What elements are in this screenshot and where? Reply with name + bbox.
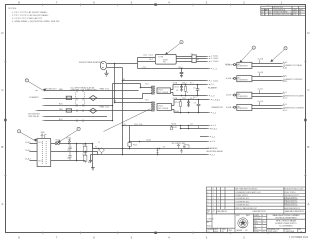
svg-text:J2-A-3: J2-A-3: [25, 157, 31, 160]
svg-text:J4-C-2: J4-C-2: [283, 98, 288, 100]
zone numbers bottom: [18, 236, 245, 240]
svg-text:B: B: [307, 145, 309, 149]
svg-text:A: A: [307, 202, 309, 206]
svg-text:-1 J1-B-1: -1 J1-B-1: [211, 80, 219, 82]
svg-text:ON: ON: [222, 231, 224, 233]
svg-text:2. PP-7 TO PP-12 AT FRONT PANE: 2. PP-7 TO PP-12 AT FRONT PANEL.: [12, 14, 49, 17]
svg-text:3. CP TO CP1-1 SEE LAYOUT.: 3. CP TO CP1-1 SEE LAYOUT.: [12, 17, 43, 20]
svg-text:CR5-1: CR5-1: [178, 67, 183, 69]
svg-text:0-50A: 0-50A: [226, 77, 232, 80]
svg-text:CONVERTER: CONVERTER: [238, 79, 249, 81]
fuse PS-1 box: [128, 143, 131, 147]
K2 comp resistor: [184, 145, 189, 148]
svg-text:HEAT COIL: HEAT COIL: [100, 105, 110, 108]
wire FL1 out 1: [176, 56, 206, 58]
left stub marks: [36, 91, 45, 121]
svg-text:CONVERTER: CONVERTER: [238, 108, 249, 110]
svg-text:CR1-1: CR1-1: [66, 138, 71, 140]
T1 input wires: [30, 144, 38, 161]
link T1 mid to row3: [97, 152, 99, 155]
balloon 3 leader: [20, 132, 36, 141]
svg-text:C4: C4: [269, 12, 271, 14]
zone tick bottom: [43, 232, 268, 235]
zone tick top: [43, 4, 268, 7]
relay K1 row BLK: [44, 105, 112, 107]
svg-text:CONVERTER: CONVERTER: [238, 96, 249, 98]
K1 contact bars: [76, 93, 85, 108]
leader diagonal to T3: [104, 109, 151, 132]
wire T2 out bottom: [171, 93, 207, 96]
svg-text:FILT: FILT: [163, 61, 166, 63]
svg-text:1: 1: [265, 12, 266, 14]
svg-text:1: 1: [213, 198, 214, 200]
capacitor C9: [197, 100, 201, 113]
svg-text:A: A: [1, 202, 3, 206]
circuit breaker CB1: [51, 143, 61, 145]
svg-text:1: 1: [213, 192, 214, 194]
svg-text:RESERVOIR: RESERVOIR: [212, 107, 224, 109]
svg-text:F1: F1: [95, 146, 97, 148]
svg-text:DEPT: DEPT: [236, 215, 240, 217]
wire T3 out bottom: [172, 110, 209, 113]
relay K2 row RED: [38, 110, 153, 112]
svg-text:11/19: 11/19: [293, 14, 297, 16]
wire row C5-1: [138, 68, 209, 70]
svg-text:SLOW: SLOW: [66, 110, 72, 112]
wire vertical filter input: [137, 58, 139, 69]
svg-text:-1,-1: -1,-1: [211, 84, 215, 86]
wire FL1 out 3: [176, 61, 206, 63]
svg-text:2: 2: [265, 14, 266, 16]
svg-text:POWER SUPPLY: POWER SUPPLY: [235, 195, 249, 197]
svg-text:J4-B-2: J4-B-2: [283, 81, 288, 83]
capacitor C2: [68, 152, 71, 161]
terminal pins J1 column: [207, 57, 213, 155]
link T1 top to row2: [92, 144, 94, 149]
title block title col: [273, 214, 301, 227]
svg-text:K2-1 SPDT REL: K2-1 SPDT REL: [172, 143, 186, 145]
bus x92.9 down to ground: [92, 144, 94, 168]
svg-text:-1,-2: -1,-2: [212, 112, 216, 114]
svg-text:ELEC: ELEC: [254, 221, 258, 223]
svg-text:10/19: 10/19: [261, 231, 265, 233]
svg-text:H2 L2: H2 L2: [39, 160, 43, 162]
svg-text:R1-1: R1-1: [83, 145, 87, 147]
svg-text:-1,-7: -1,-7: [211, 155, 215, 157]
svg-text:VERTICAL COIL (ENERGIZED): VERTICAL COIL (ENERGIZED): [71, 89, 98, 92]
svg-text:RESERVOIR CURRENT: RESERVOIR CURRENT: [283, 108, 305, 110]
wire y83.5: [113, 83, 141, 85]
diode CR8: [180, 85, 183, 92]
wire FL1 out 2: [176, 58, 206, 60]
resistor R2-1: [83, 155, 87, 161]
balloon digits: [19, 42, 287, 133]
wire long row 2: [93, 148, 208, 150]
svg-text:1: 1: [207, 208, 208, 210]
svg-text:-1,-8: -1,-8: [211, 96, 215, 98]
svg-text:FILAMENT CURRENT: FILAMENT CURRENT: [283, 78, 303, 81]
svg-text:20-J4-B: 20-J4-B: [258, 72, 264, 74]
bus x129: [129, 126, 131, 149]
capacitor C5-1 hanging: [180, 69, 184, 78]
svg-text:-1,-5: -1,-5: [212, 125, 216, 127]
svg-text:2: 2: [285, 48, 286, 50]
svg-text:J1-B-3: J1-B-3: [211, 129, 217, 131]
svg-text:T2-1: T2-1: [145, 83, 149, 85]
svg-text:REF TUBE SMITH SOLENOID: REF TUBE SMITH SOLENOID: [235, 189, 258, 191]
svg-text:WS: WS: [261, 221, 263, 223]
svg-text:E1: E1: [88, 162, 90, 164]
K1 contact ticks: [77, 90, 83, 122]
transformer T3: [152, 101, 154, 111]
wire T3 out top: [172, 100, 209, 106]
svg-text:L6-2: L6-2: [149, 59, 153, 61]
svg-text:TECHNICAL DEPARTMENT: TECHNICAL DEPARTMENT: [275, 216, 296, 219]
ground K2: [180, 149, 183, 154]
line filter FL1: [155, 54, 176, 64]
svg-text:C7: C7: [193, 87, 195, 89]
svg-text:1. PP-1 TO PP-5 AT FRONT PANEL: 1. PP-1 TO PP-5 AT FRONT PANEL.: [12, 11, 48, 14]
svg-text:J4-D-1: J4-D-1: [283, 104, 288, 106]
svg-text:05Z: 05Z: [245, 230, 248, 232]
svg-text:1 OCTOBER 2019: 1 OCTOBER 2019: [289, 237, 309, 239]
A/D converter U3: [233, 90, 285, 98]
svg-text:STEEL TORCH: STEEL TORCH: [284, 192, 296, 194]
svg-text:H1 L1: H1 L1: [39, 142, 43, 144]
wire T1 out top: [61, 143, 93, 145]
svg-text:REL: REL: [183, 146, 187, 148]
balloon 1 leader: [166, 43, 181, 54]
svg-text:4. WIRE-WRAP = (W)TWISTED-WIRE: 4. WIRE-WRAP = (W)TWISTED-WIRE, SEE W/L: [12, 20, 61, 23]
balloon 6 leader: [271, 50, 284, 62]
relay K1 group upper row RED: [45, 90, 139, 92]
rectifier CR7 box: [157, 88, 171, 94]
svg-text:CR8-1: CR8-1: [182, 83, 187, 85]
svg-text:-1,-6: -1,-6: [211, 141, 215, 143]
svg-text:1: 1: [213, 205, 214, 207]
relay K1 row mid: [44, 98, 142, 100]
K2 slow box: [66, 109, 71, 112]
svg-text:5623155: 5623155: [286, 231, 295, 233]
svg-text:R5: R5: [124, 124, 126, 126]
K2 comp cluster diode: [177, 144, 179, 148]
wire K1 mid jog: [143, 94, 153, 99]
svg-text:1: 1: [218, 198, 219, 200]
diode CR1-1: [68, 139, 70, 144]
group D link verticals: [181, 126, 199, 129]
wire connector pin2: [107, 67, 122, 69]
svg-text:CR 81: CR 81: [171, 123, 176, 125]
svg-text:B: B: [1, 145, 3, 149]
title block approvals col: [254, 214, 265, 233]
svg-text:CR10: CR10: [182, 98, 186, 100]
svg-text:54321: 54321: [273, 231, 278, 233]
svg-text:1: 1: [78, 129, 79, 131]
svg-text:D2: D2: [269, 14, 271, 16]
svg-text:HEAT COIL: HEAT COIL: [100, 87, 110, 90]
svg-text:JW: JW: [299, 14, 302, 16]
bus x112: [112, 84, 114, 121]
svg-text:J3-GND-V13: J3-GND-V13: [46, 89, 57, 91]
title block seal emblem: [238, 218, 248, 228]
svg-text:3: 3: [19, 131, 20, 133]
svg-text:D: D: [268, 230, 270, 233]
svg-text:C9: C9: [194, 103, 196, 105]
svg-text:5: 5: [207, 195, 208, 197]
varistor B1: [99, 148, 105, 153]
svg-text:C6-1 + L6-1: C6-1 + L6-1: [143, 54, 153, 56]
svg-text:R2-1: R2-1: [83, 154, 87, 156]
zone letters right: [307, 31, 310, 206]
wire T1 out bottom: [51, 160, 86, 162]
K2 coil: [90, 108, 97, 113]
svg-text:R5-1 100: R5-1 100: [134, 124, 142, 126]
svg-text:NEXT: NEXT: [214, 229, 218, 231]
svg-text:20-J4-C: 20-J4-C: [258, 89, 265, 91]
fold mark bottom: [154, 232, 156, 234]
svg-text:SLOW: SLOW: [66, 98, 72, 100]
resistor R7: [185, 85, 187, 96]
svg-text:MANUFACTURER/SPEC: MANUFACTURER/SPEC: [285, 210, 305, 213]
K1 coil: [90, 95, 97, 100]
title block left col text: [207, 218, 233, 234]
svg-text:CONVERTER: CONVERTER: [238, 66, 249, 68]
svg-text:DESCRIPTION: DESCRIPTION: [253, 211, 267, 213]
wire vertical bus x122: [122, 68, 124, 155]
svg-text:L7-1: L7-1: [190, 54, 193, 56]
svg-text:DC SCHEMATIC: DC SCHEMATIC: [279, 224, 293, 227]
extra component value labels: [98, 54, 199, 149]
wire group D top: [123, 125, 209, 127]
filter text: [158, 57, 168, 64]
svg-text:ISSUED: ISSUED: [254, 231, 259, 233]
bus x76: [76, 144, 78, 161]
svg-text:3: 3: [207, 201, 208, 203]
fold mark right: [304, 119, 306, 121]
svg-text:NOISE: NOISE: [163, 60, 168, 62]
svg-text:CR J1: CR J1: [174, 86, 179, 88]
zone letters left: [1, 31, 4, 206]
svg-text:FILAMENT VOLTAGE: FILAMENT VOLTAGE: [283, 64, 302, 67]
resistor R9: [180, 100, 182, 113]
resistor R5-1: [171, 126, 173, 130]
wire group D bottom: [181, 128, 208, 130]
balloon 4: [77, 127, 80, 130]
svg-text:-1,-3: -1,-3: [213, 69, 217, 71]
svg-text:T3-1: T3-1: [145, 100, 149, 102]
svg-text:C1: C1: [67, 149, 69, 151]
zone numbers top: [18, 1, 283, 5]
svg-text:J4-C-1: J4-C-1: [283, 92, 288, 94]
svg-text:1: 1: [218, 201, 219, 203]
A/D converter U2: [233, 73, 285, 82]
fold mark left: [4, 119, 6, 121]
svg-text:0-50A: 0-50A: [226, 106, 232, 109]
diode CR10: [187, 100, 190, 107]
relay K2 row BLK: [44, 120, 112, 122]
K1 slow box: [66, 96, 71, 99]
svg-text:RED: RED: [59, 89, 64, 91]
svg-text:2: 2: [253, 47, 254, 49]
choke L7: [192, 55, 196, 63]
svg-text:CR J2: CR J2: [174, 102, 179, 104]
ground at connector: [104, 70, 108, 76]
wire vertical bus x114: [114, 64, 116, 103]
schematic small labels: [25, 54, 196, 163]
svg-text:MECH: MECH: [254, 223, 258, 225]
ground T1: [91, 168, 95, 170]
svg-text:E3: E3: [123, 79, 125, 81]
wire T1 out mid: [51, 151, 98, 153]
jog to T2: [141, 84, 153, 88]
T1 shield symbol: [41, 134, 47, 139]
terminal labels J1: [206, 55, 230, 157]
svg-text:-1 J1-B-2: -1 J1-B-2: [212, 99, 220, 101]
svg-text:KC: KC: [261, 229, 263, 231]
balloon 4 leader: [58, 130, 77, 142]
svg-text:2: 2: [207, 205, 208, 207]
svg-text:22: 22: [98, 142, 100, 144]
svg-text:CHECKED: CHECKED: [254, 218, 261, 220]
filter FL1 input stubs: [138, 58, 156, 62]
A/D converter U1: [233, 60, 285, 68]
balloon 5 leader: [240, 49, 253, 63]
svg-text:1N4148: 1N4148: [171, 127, 177, 129]
relay K2 row mid: [44, 116, 107, 118]
svg-text:1: 1: [181, 42, 182, 44]
svg-text:(S/C+10UH): (S/C+10UH): [158, 92, 169, 94]
svg-text:20-J4-D: 20-J4-D: [258, 101, 265, 103]
connector P1 from power inverter: [100, 61, 106, 70]
svg-text:RED: RED: [59, 109, 64, 111]
title block: [206, 214, 305, 233]
svg-text:J2-A-2: J2-A-2: [25, 149, 31, 152]
svg-text:SHORTING RELAY: SHORTING RELAY: [206, 150, 223, 153]
svg-text:NOTES:: NOTES:: [9, 8, 18, 10]
svg-text:C9-1: C9-1: [193, 97, 197, 99]
revision block: [261, 6, 306, 15]
svg-text:DB: DB: [261, 223, 263, 225]
svg-text:GROUNDED: GROUNDED: [206, 148, 218, 150]
transformer T1 box: [37, 139, 51, 167]
svg-text:1: 1: [213, 208, 214, 210]
wire long row 3: [91, 154, 208, 156]
fold mark top: [154, 3, 156, 5]
svg-text:R7-1: R7-1: [190, 83, 194, 85]
svg-text:C11: C11: [190, 124, 193, 126]
svg-text:PS-1: PS-1: [133, 145, 137, 147]
svg-text:K2: K2: [163, 147, 165, 149]
rectifier CR9 box: [157, 104, 172, 111]
balloon 6: [284, 47, 287, 50]
balloon 3: [17, 130, 20, 133]
resistor R1-1: [83, 146, 87, 152]
A/D labels: [226, 57, 305, 111]
svg-text:CB1-1: CB1-1: [55, 140, 60, 142]
svg-text:6: 6: [207, 192, 208, 194]
balloon 2 leader: [28, 81, 44, 90]
stub row -1,-4: [200, 136, 208, 138]
svg-text:1: 1: [218, 205, 219, 207]
svg-text:GND: GND: [41, 132, 46, 134]
wire T3 primary bottom: [38, 110, 153, 112]
svg-text:FROM POWER INVERTER: FROM POWER INVERTER: [79, 62, 103, 64]
svg-text:QTY: QTY: [212, 211, 215, 213]
svg-text:REVISED PER ECN 0041: REVISED PER ECN 0041: [274, 14, 294, 16]
svg-text:4: 4: [207, 198, 208, 200]
svg-text:C5-1: C5-1: [142, 67, 146, 69]
svg-text:TIME DELAY: TIME DELAY: [28, 115, 40, 118]
transformer T2: [152, 86, 154, 95]
ground E-GND: [89, 155, 92, 163]
parts list: [206, 187, 305, 214]
svg-text:0-150V: 0-150V: [226, 64, 233, 66]
svg-text:RT: RT: [261, 218, 263, 220]
svg-text:J4-D-2: J4-D-2: [283, 110, 288, 112]
wire connector pin1 to bus: [107, 63, 137, 65]
svg-text:FILAMENT: FILAMENT: [29, 96, 39, 99]
svg-text:(S/C+10UH): (S/C+10UH): [158, 108, 169, 110]
balloon 1: [180, 41, 183, 44]
wire long row 1: [130, 141, 208, 143]
zone tick sides: [4, 62, 307, 176]
svg-text:J2-A-1: J2-A-1: [25, 141, 31, 144]
wire row y80.6 to J1: [123, 80, 207, 82]
capacitor C1: [68, 144, 71, 152]
svg-text:E2: E2: [197, 59, 199, 61]
svg-text:J4-B-1: J4-B-1: [283, 75, 288, 77]
svg-text:0-5KV: 0-5KV: [226, 95, 232, 97]
svg-text:N00024: N00024: [207, 226, 212, 228]
balloon 5: [252, 46, 255, 49]
svg-text:FILAMENT: FILAMENT: [208, 87, 218, 90]
svg-text:1: 1: [213, 195, 214, 197]
junction dots: [68, 63, 200, 162]
svg-text:-1,-4: -1,-4: [211, 137, 215, 139]
svg-text:LN: LN: [261, 226, 263, 228]
svg-text:1: 1: [213, 189, 214, 191]
svg-text:C2: C2: [67, 158, 69, 160]
svg-text:RESERVOIR VOLTAGE: RESERVOIR VOLTAGE: [283, 95, 304, 98]
svg-text:2: 2: [26, 80, 27, 82]
balloon 2: [25, 79, 28, 82]
svg-text:-2 J1-A-3: -2 J1-A-3: [211, 60, 219, 63]
wire T2 out top: [171, 85, 207, 90]
wire to T3 primary top: [115, 102, 153, 104]
svg-text:1: 1: [213, 201, 214, 203]
A/D converter U4: [233, 102, 285, 111]
notes block: [9, 8, 61, 23]
svg-text:-2 J1-A-2: -2 J1-A-2: [211, 57, 219, 60]
capacitor C7-1: [196, 85, 200, 96]
comp between rows: [157, 149, 159, 155]
